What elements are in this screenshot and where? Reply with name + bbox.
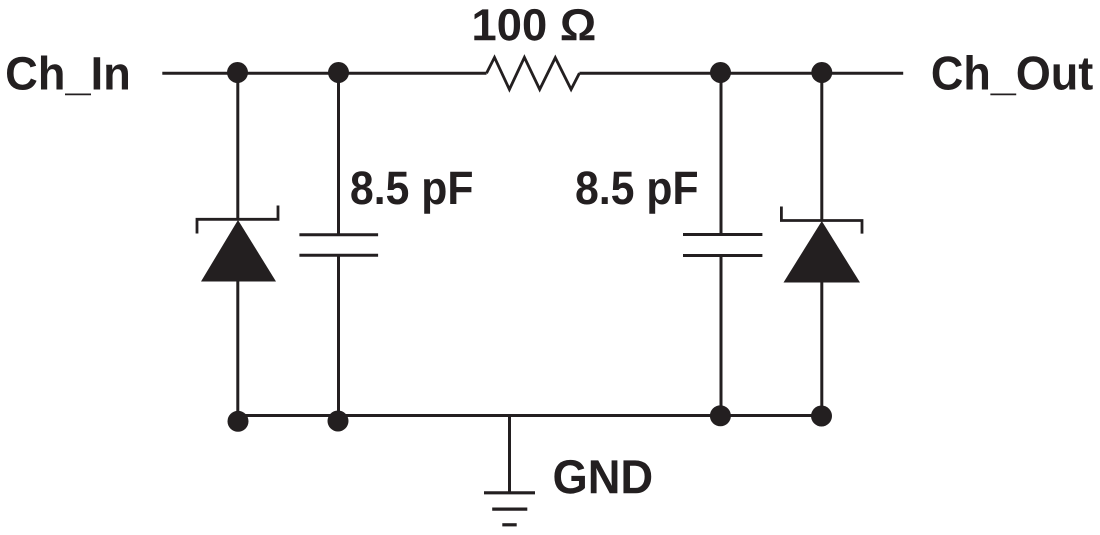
wire right capacitor vertical lower (720, 256, 723, 417)
node junction dot bottom 2 (328, 411, 349, 432)
node junction dot bottom 3 (710, 405, 731, 426)
TVS diode D1 triangle (201, 220, 276, 282)
wire left capacitor vertical lower (337, 255, 340, 421)
value label C1 8.5 pF (351, 171, 472, 213)
node junction dot top 3 (710, 62, 731, 83)
wire right diode vertical lower (820, 283, 823, 417)
wire top-left segment (162, 72, 486, 75)
wire left diode vertical upper (236, 73, 239, 220)
wire left diode vertical lower (236, 281, 239, 421)
value label 100 ohm (474, 9, 594, 41)
capacitor C2 top plate (683, 233, 762, 236)
net label Ch_Out (933, 55, 1093, 95)
wire right diode vertical upper (820, 73, 823, 221)
node junction dot top 1 (227, 62, 248, 83)
wire left capacitor vertical upper (337, 73, 340, 235)
TVS diode D2 triangle (784, 221, 861, 283)
wire bottom (238, 414, 822, 417)
net label GND (554, 460, 651, 494)
TVS diode D1 cathode bar (197, 206, 278, 234)
net label Ch_In (7, 56, 128, 96)
value label C2 8.5 pF (576, 171, 697, 213)
wire right capacitor vertical upper (720, 73, 723, 235)
TVS diode D2 cathode bar (781, 207, 862, 234)
node junction dot top 2 (328, 62, 349, 83)
wire top-right segment (579, 72, 903, 75)
resistor R1 (487, 57, 580, 89)
wire ground stem (508, 416, 511, 493)
node junction dot bottom 1 (228, 411, 249, 432)
capacitor C1 bottom plate (299, 254, 378, 257)
capacitor C2 bottom plate (683, 254, 762, 257)
ground symbol (484, 493, 535, 525)
node junction dot bottom 4 (811, 406, 832, 427)
capacitor C1 top plate (299, 233, 378, 236)
node junction dot top 4 (811, 62, 832, 83)
